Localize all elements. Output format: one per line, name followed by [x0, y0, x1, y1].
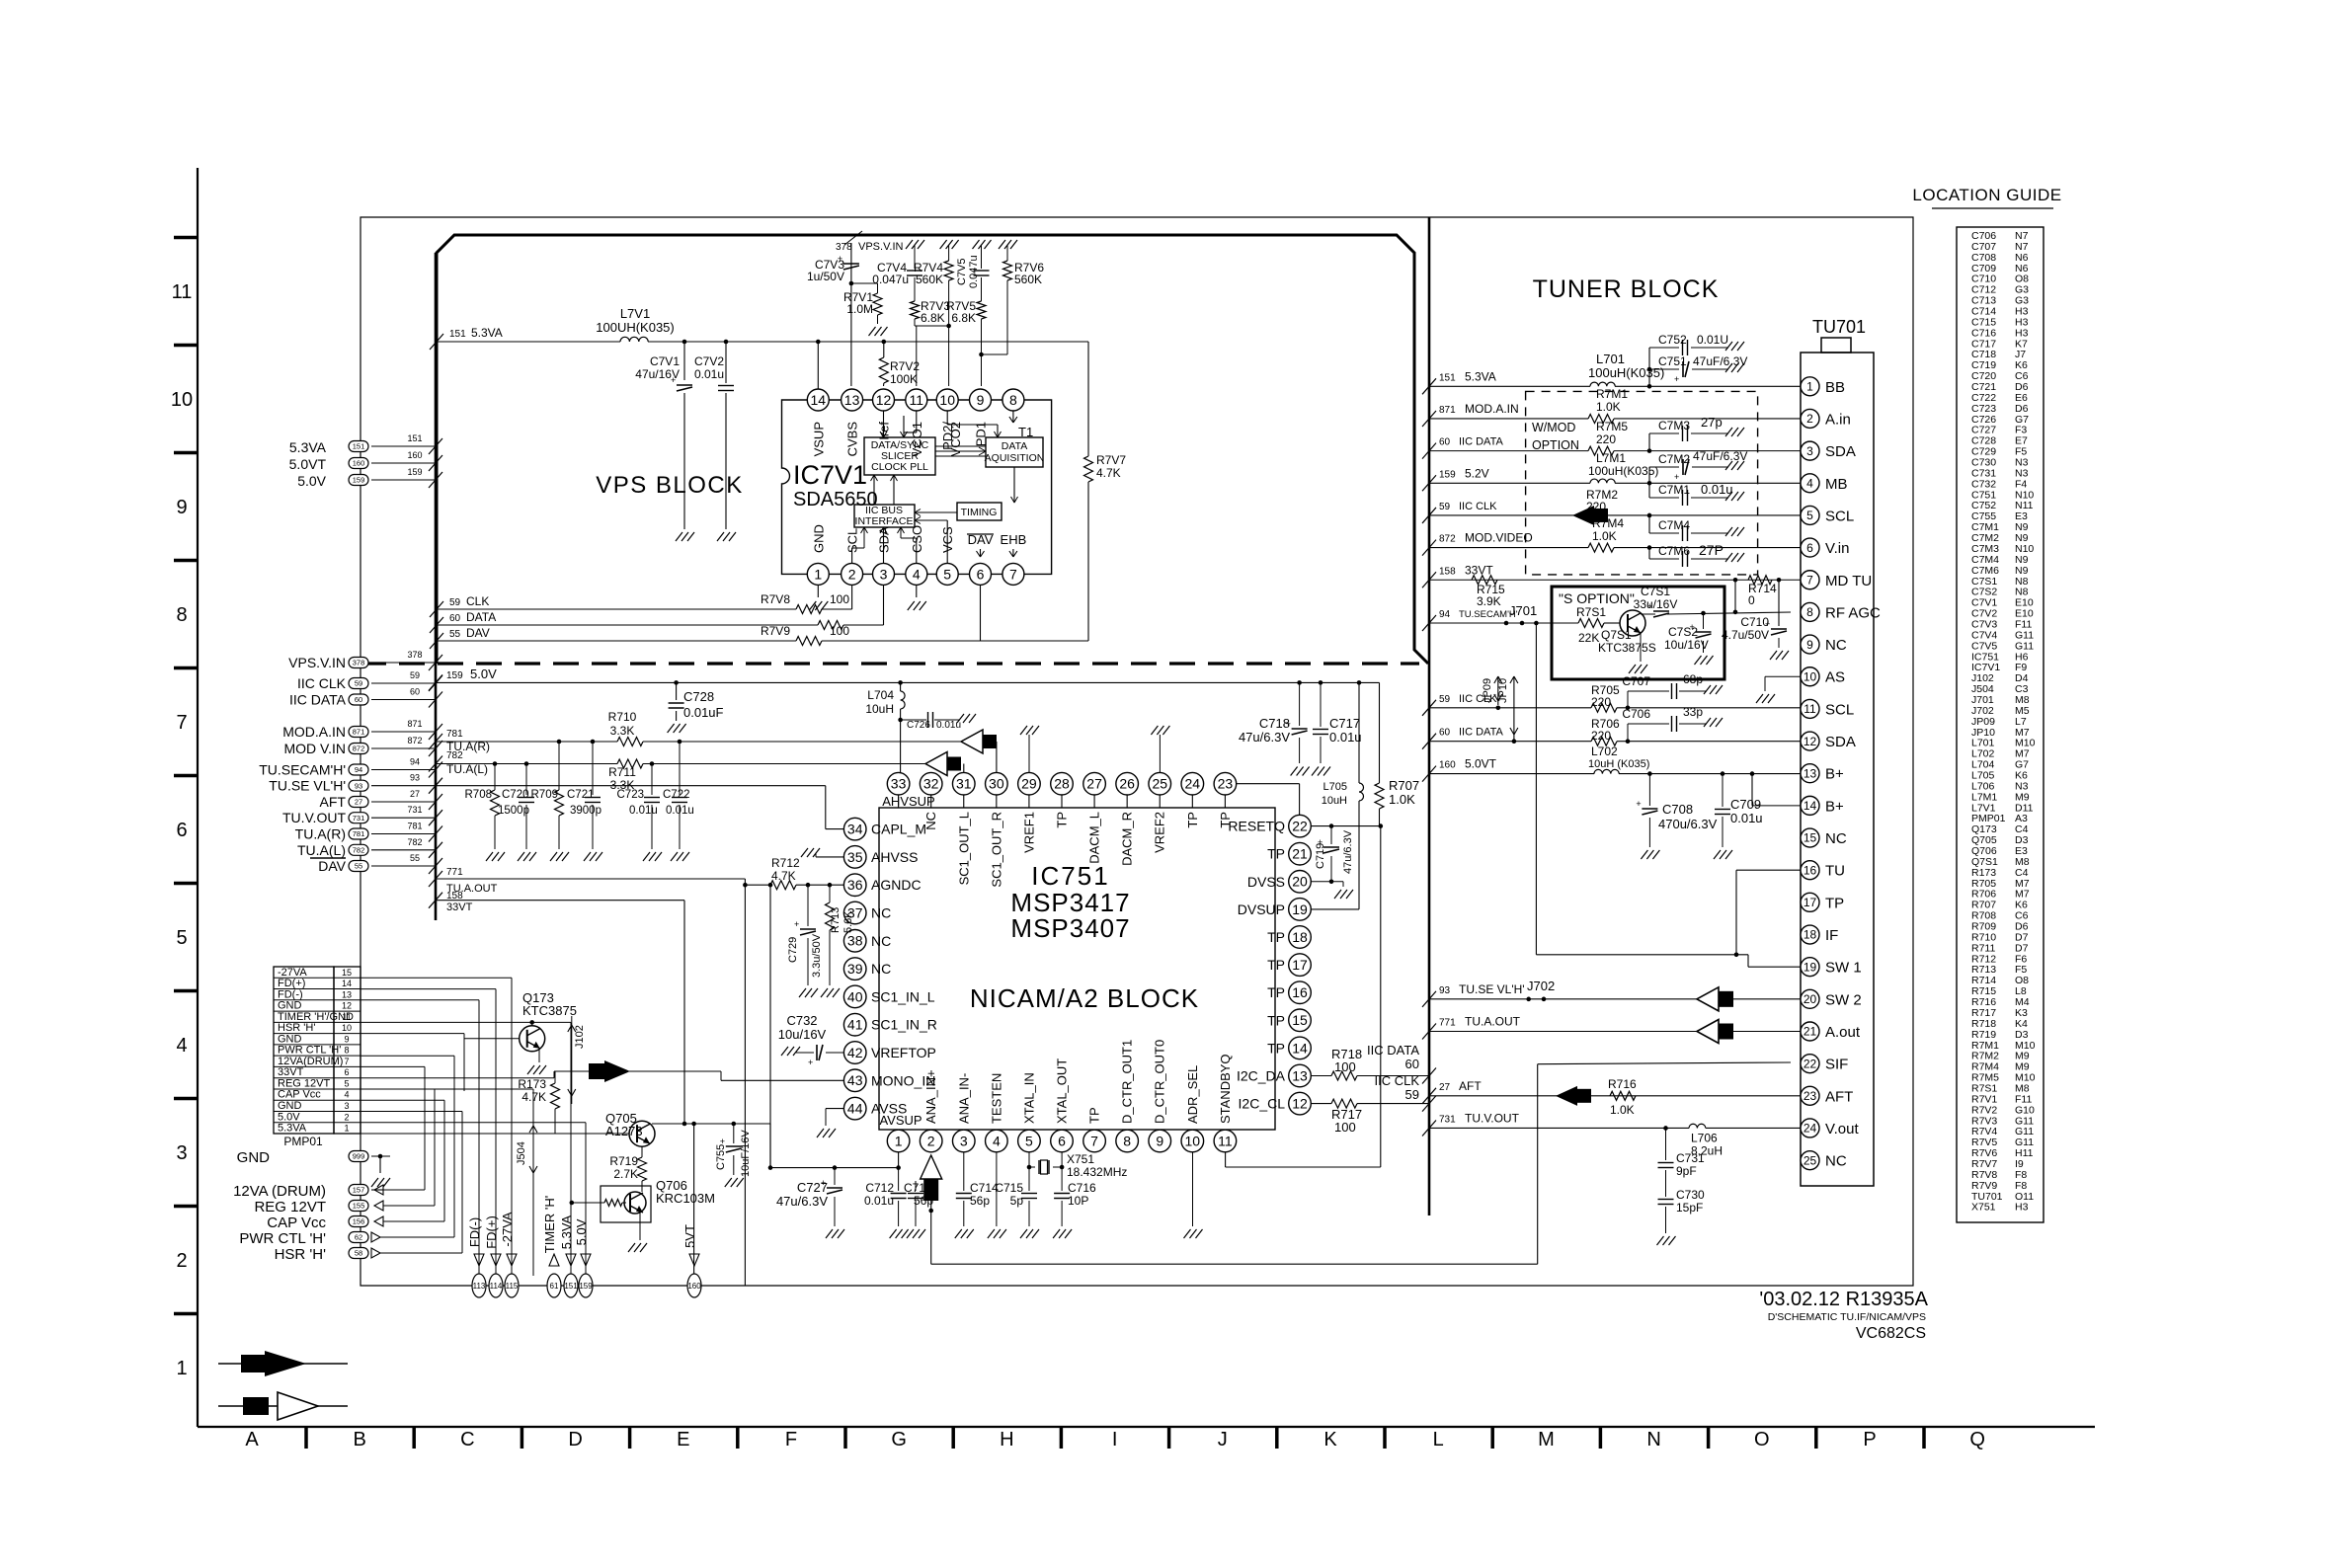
capacitor C715: [1028, 1152, 1030, 1191]
svg-text:32: 32: [923, 776, 939, 792]
svg-text:781: 781: [446, 729, 463, 740]
svg-text:14: 14: [342, 979, 352, 988]
svg-text:IC751: IC751: [1031, 861, 1109, 891]
pin 22 of IC751: [1289, 815, 1312, 837]
svg-text:9: 9: [344, 1034, 349, 1044]
pin 44 of IC751: [843, 1097, 866, 1120]
svg-text:+: +: [1636, 799, 1641, 809]
svg-text:1.0K: 1.0K: [1610, 1103, 1635, 1117]
pin 5 of IC751: [1018, 1130, 1041, 1152]
svg-text:16: 16: [1804, 863, 1817, 877]
svg-text:SCL: SCL: [1825, 701, 1854, 718]
svg-text:12VA (DRUM): 12VA (DRUM): [233, 1183, 326, 1200]
svg-text:100: 100: [1334, 1059, 1356, 1074]
svg-text:AS: AS: [1825, 669, 1845, 686]
transistor Q706 digital: [601, 1186, 651, 1222]
svg-text:C706: C706: [1622, 707, 1650, 721]
svg-text:C712: C712: [865, 1181, 894, 1195]
svg-text:R7V9: R7V9: [761, 624, 790, 638]
pin 17 of IC751: [1289, 954, 1312, 977]
svg-text:13: 13: [342, 989, 352, 999]
svg-text:33VT: 33VT: [278, 1066, 304, 1078]
pin 39 of IC751: [843, 958, 866, 980]
svg-text:11: 11: [342, 1012, 351, 1022]
svg-text:19: 19: [1292, 902, 1308, 917]
jumper J702: [1526, 997, 1531, 1002]
wire pin 16 TU: [1736, 869, 1801, 871]
svg-text:BB: BB: [1825, 379, 1845, 396]
svg-text:R7V2: R7V2: [890, 359, 920, 373]
svg-text:AFT: AFT: [1825, 1088, 1853, 1105]
svg-text:378: 378: [836, 242, 852, 253]
svg-text:L702: L702: [1591, 745, 1618, 758]
ground Q173 emitter: [538, 1049, 540, 1062]
svg-text:0.01u: 0.01u: [694, 367, 724, 381]
svg-text:ANA_IN+: ANA_IN+: [923, 1069, 938, 1124]
svg-text:781: 781: [407, 822, 422, 831]
svg-text:100: 100: [830, 592, 849, 606]
svg-text:1.0K: 1.0K: [1596, 400, 1621, 414]
svg-text:TESTEN: TESTEN: [989, 1073, 1003, 1124]
wire pin 23 to RESETQ: [1237, 783, 1300, 785]
svg-text:871: 871: [1439, 405, 1456, 416]
wire TU.A(R) 781 line: [429, 734, 442, 749]
svg-text:L706: L706: [1691, 1131, 1718, 1144]
svg-text:18: 18: [1292, 929, 1308, 945]
svg-text:J504: J504: [516, 1141, 527, 1165]
svg-text:782: 782: [446, 750, 463, 761]
svg-text:5.6K: 5.6K: [842, 910, 854, 933]
wire RESETQ net riser: [1380, 826, 1382, 1167]
capacitor C751 tuner top: [1649, 368, 1679, 370]
svg-text:HSR 'H': HSR 'H': [278, 1022, 315, 1034]
svg-text:SW 2: SW 2: [1825, 991, 1862, 1008]
svg-text:CLK: CLK: [466, 594, 489, 608]
wire AFT to pin 23: [1422, 1088, 1436, 1104]
svg-text:5.0V: 5.0V: [278, 1111, 300, 1123]
capacitor C709: [1721, 771, 1725, 776]
svg-text:94: 94: [355, 765, 362, 774]
svg-text:IIC CLK: IIC CLK: [1459, 501, 1497, 512]
resistor R7V1: [849, 281, 854, 286]
svg-text:0.01u: 0.01u: [864, 1194, 894, 1208]
svg-text:160: 160: [407, 450, 422, 460]
svg-text:4: 4: [1806, 476, 1813, 490]
svg-text:26: 26: [1119, 776, 1135, 792]
svg-text:33VT: 33VT: [1465, 563, 1493, 577]
svg-text:NICAM/A2 BLOCK: NICAM/A2 BLOCK: [970, 983, 1199, 1013]
svg-text:3: 3: [344, 1101, 349, 1111]
pin 18 of TU701: [1801, 925, 1819, 944]
pin 22 of TU701: [1801, 1055, 1819, 1073]
wire right bus vertical: [1428, 217, 1431, 1215]
inductor L704: [898, 680, 903, 685]
svg-text:3900p: 3900p: [570, 805, 601, 817]
arrow on AFT line: [1556, 1086, 1577, 1106]
svg-text:782: 782: [353, 845, 365, 854]
svg-text:D: D: [568, 1429, 582, 1450]
capacitor C726: [898, 718, 903, 723]
pin 2 of TU701: [1801, 409, 1819, 428]
svg-text:5.3VA: 5.3VA: [1465, 369, 1496, 383]
svg-text:CAP Vcc: CAP Vcc: [267, 1215, 326, 1231]
svg-text:4: 4: [993, 1133, 1001, 1148]
wire 60 DATA line: [430, 617, 443, 633]
svg-text:TU.A(R): TU.A(R): [295, 826, 346, 842]
capacitor C732: [826, 1052, 843, 1054]
svg-text:58: 58: [355, 1249, 362, 1258]
resistor R7V4: [944, 261, 953, 280]
svg-text:151: 151: [407, 433, 422, 443]
pin 3 of IC7V1: [873, 563, 895, 585]
svg-text:DATA: DATA: [1002, 440, 1027, 452]
pin 11 of TU701: [1801, 699, 1819, 718]
svg-text:A.out: A.out: [1825, 1024, 1861, 1041]
svg-text:DAV: DAV: [466, 626, 490, 640]
svg-text:GND: GND: [278, 1100, 302, 1112]
capacitor C727: [834, 1168, 836, 1185]
pin 25 of TU701: [1801, 1151, 1819, 1170]
pin 1 of IC7V1: [807, 563, 829, 585]
svg-text:ADR_SEL: ADR_SEL: [1185, 1065, 1200, 1124]
svg-text:7: 7: [1009, 566, 1017, 582]
svg-text:10: 10: [1804, 669, 1817, 683]
column tick marks: [304, 1427, 308, 1449]
svg-text:151: 151: [353, 442, 365, 451]
svg-text:15: 15: [342, 968, 352, 978]
wire 33VT to pin 7 MD TU: [1422, 572, 1436, 588]
svg-text:TU.SE VL'H': TU.SE VL'H': [1459, 982, 1525, 996]
ground top cluster VPS: [906, 240, 924, 249]
pin 27 of IC751: [1093, 795, 1095, 808]
svg-text:C708: C708: [1662, 802, 1693, 817]
svg-text:SDA: SDA: [1825, 734, 1856, 750]
wire dashed separator line: [361, 662, 1419, 665]
svg-text:R712: R712: [771, 856, 800, 870]
svg-text:DACM_R: DACM_R: [1120, 812, 1135, 866]
svg-text:G: G: [891, 1429, 907, 1450]
svg-text:9: 9: [977, 392, 985, 408]
pin 14 of IC7V1: [807, 389, 829, 411]
resistor R7V5: [977, 301, 986, 319]
svg-text:C7M1: C7M1: [1658, 483, 1690, 497]
pin 9 of TU701: [1801, 635, 1819, 654]
svg-text:C709: C709: [1730, 797, 1761, 812]
svg-text:ANA_IN-: ANA_IN-: [956, 1073, 971, 1124]
pin 1 of TU701: [1801, 377, 1819, 396]
wire IIC DATA to pin 12 SDA: [1422, 734, 1436, 749]
svg-text:AHVSS: AHVSS: [871, 849, 918, 865]
wire TU.V.OUT to pin 24 V.out: [1422, 1120, 1436, 1136]
svg-text:782: 782: [407, 837, 422, 847]
pin 21 of IC751: [1289, 842, 1312, 865]
resistor R714: [1733, 578, 1738, 583]
wire 55 DAV line: [430, 633, 443, 649]
svg-text:156: 156: [353, 1217, 365, 1226]
svg-text:Q: Q: [1969, 1429, 1985, 1450]
svg-text:11: 11: [172, 281, 193, 303]
svg-text:C7M3: C7M3: [1658, 419, 1690, 432]
connector TU701 body: [1801, 353, 1874, 1186]
svg-text:TP: TP: [1267, 957, 1285, 973]
svg-text:TIMER 'H': TIMER 'H': [542, 1196, 557, 1253]
box S OPTION: [1552, 587, 1724, 679]
svg-text:I2C_CL: I2C_CL: [1239, 1096, 1286, 1112]
svg-text:XTAL_IN: XTAL_IN: [1021, 1072, 1036, 1124]
capacitor C729: [806, 883, 811, 888]
pin 6 of IC751: [1051, 1130, 1074, 1152]
svg-text:AHVSUP: AHVSUP: [882, 794, 934, 809]
box IIC BUS INTERFACE: [854, 505, 915, 527]
pin 6 of IC7V1: [970, 563, 992, 585]
svg-text:IIC DATA: IIC DATA: [1459, 727, 1503, 739]
location guide rows: [1971, 230, 2036, 1214]
capacitor C7M6: [1647, 545, 1652, 550]
svg-text:56p: 56p: [914, 1194, 933, 1208]
svg-text:C7V1: C7V1: [650, 354, 680, 368]
capacitor C7V3: [843, 264, 859, 270]
svg-text:5: 5: [344, 1078, 349, 1088]
svg-text:100UH(K035): 100UH(K035): [596, 320, 675, 335]
wire MOD.A.IN to pin 2: [1422, 411, 1436, 427]
pin 7 of IC751: [1083, 1130, 1106, 1152]
svg-text:5: 5: [1806, 509, 1813, 522]
svg-text:1500p: 1500p: [498, 805, 529, 817]
svg-text:DAV: DAV: [318, 858, 346, 874]
svg-text:OPTION: OPTION: [1532, 438, 1579, 452]
svg-text:24: 24: [1804, 1122, 1817, 1136]
svg-text:J: J: [1218, 1429, 1228, 1450]
svg-text:IIC DATA: IIC DATA: [1367, 1043, 1419, 1058]
svg-text:18: 18: [1804, 928, 1817, 942]
op-amp U.. IC751 body: [879, 808, 1275, 1130]
svg-text:TP: TP: [1267, 984, 1285, 1000]
svg-text:731: 731: [407, 805, 422, 815]
svg-text:871: 871: [407, 719, 422, 729]
svg-text:19: 19: [1804, 960, 1817, 974]
svg-text:MOD.A.IN: MOD.A.IN: [282, 724, 346, 740]
pin 20 of TU701: [1801, 989, 1819, 1008]
svg-text:731: 731: [1439, 1114, 1456, 1125]
svg-text:61: 61: [550, 1282, 559, 1291]
svg-text:5.0VT: 5.0VT: [1465, 757, 1497, 771]
svg-text:15: 15: [1292, 1012, 1308, 1028]
svg-text:XTAL_OUT: XTAL_OUT: [1055, 1058, 1070, 1124]
svg-text:NC: NC: [871, 933, 891, 949]
svg-text:60: 60: [410, 687, 420, 697]
svg-text:SC1_IN_L: SC1_IN_L: [871, 988, 935, 1004]
svg-text:TU.A(L): TU.A(L): [446, 762, 488, 776]
pin 19 of TU701: [1801, 958, 1819, 977]
svg-text:29: 29: [1021, 776, 1037, 792]
arrow into pin 31: [963, 764, 965, 773]
svg-text:TP: TP: [1267, 1012, 1285, 1028]
svg-text:C732: C732: [786, 1013, 817, 1028]
svg-text:220: 220: [1586, 500, 1606, 513]
svg-text:470u/6.3V: 470u/6.3V: [1658, 817, 1718, 831]
svg-text:X751: X751: [1067, 1152, 1094, 1166]
resistor R7V2: [882, 340, 887, 345]
svg-text:60: 60: [1405, 1057, 1419, 1071]
wire pin 22 RESETQ line: [1311, 825, 1381, 827]
svg-text:220: 220: [1591, 729, 1611, 743]
svg-text:10u/16V: 10u/16V: [778, 1027, 827, 1042]
pin 6 of TU701: [1801, 538, 1819, 557]
svg-text:55: 55: [449, 629, 461, 640]
svg-text:59: 59: [1405, 1087, 1419, 1102]
svg-text:35: 35: [847, 849, 863, 865]
svg-text:MOD V.IN: MOD V.IN: [284, 741, 347, 756]
pin 13 of TU701: [1801, 764, 1819, 783]
svg-text:872: 872: [407, 736, 422, 745]
svg-text:TU.SE VL'H': TU.SE VL'H': [269, 778, 346, 794]
svg-text:21: 21: [1804, 1025, 1817, 1039]
location guide box: [1957, 227, 2044, 1222]
svg-text:5: 5: [176, 927, 187, 949]
svg-text:6: 6: [1058, 1133, 1066, 1148]
svg-text:FD(-): FD(-): [467, 1217, 482, 1247]
jumper JP10: [1512, 739, 1517, 744]
svg-text:160: 160: [353, 459, 365, 468]
svg-text:TP: TP: [1825, 895, 1844, 911]
svg-text:C727: C727: [797, 1180, 828, 1195]
svg-text:159: 159: [1439, 469, 1456, 480]
svg-text:R707: R707: [1389, 778, 1419, 793]
svg-text:FD(+): FD(+): [278, 978, 305, 989]
svg-text:59: 59: [1439, 502, 1451, 512]
svg-text:47u/16V: 47u/16V: [635, 367, 680, 381]
svg-text:REG 12VT: REG 12VT: [278, 1077, 330, 1089]
svg-text:TU701: TU701: [1812, 317, 1866, 337]
pin 23 of TU701: [1801, 1086, 1819, 1105]
svg-text:0.01u: 0.01u: [936, 720, 961, 731]
svg-text:7: 7: [1090, 1133, 1098, 1148]
svg-text:TU.A.OUT: TU.A.OUT: [1465, 1015, 1521, 1029]
pin 28 of IC751: [1061, 795, 1063, 808]
svg-text:14: 14: [1292, 1040, 1308, 1056]
wire 33VT 158 line: [429, 893, 442, 908]
svg-text:IIC CLK: IIC CLK: [297, 675, 347, 691]
pin 3 of IC751: [952, 1130, 975, 1152]
svg-text:IIC CLK: IIC CLK: [1459, 693, 1497, 705]
svg-text:F: F: [785, 1429, 797, 1450]
ground for connector 999: [379, 1156, 381, 1173]
svg-text:CAPL_M: CAPL_M: [871, 822, 926, 837]
svg-text:C716: C716: [1068, 1181, 1096, 1195]
svg-text:15pF: 15pF: [1676, 1201, 1703, 1215]
svg-text:TUNER BLOCK: TUNER BLOCK: [1533, 275, 1720, 303]
wire pin 10 AS to ground: [1765, 675, 1801, 677]
svg-text:I: I: [1112, 1429, 1118, 1450]
pin 34 of IC751: [843, 818, 866, 840]
svg-text:4.7u/50V: 4.7u/50V: [1722, 628, 1769, 642]
svg-text:VREFTOP: VREFTOP: [871, 1045, 936, 1060]
resistor R718 to bus: [1311, 1075, 1331, 1077]
svg-text:L7M1: L7M1: [1596, 451, 1626, 465]
svg-text:14: 14: [1804, 799, 1817, 813]
svg-text:Q7S1: Q7S1: [1601, 628, 1632, 642]
svg-text:59: 59: [410, 670, 420, 680]
svg-text:6: 6: [176, 820, 187, 841]
svg-text:1: 1: [1806, 380, 1813, 394]
wire 5.0VT to pin 13 B+: [1422, 766, 1436, 782]
svg-text:17: 17: [1804, 896, 1817, 909]
svg-text:SIF: SIF: [1825, 1057, 1848, 1073]
svg-text:30: 30: [989, 776, 1004, 792]
border frame left edge: [197, 168, 199, 1427]
svg-text:151: 151: [1439, 372, 1456, 383]
svg-text:N: N: [1646, 1429, 1660, 1450]
svg-text:6.8K: 6.8K: [951, 311, 976, 325]
svg-text:C728: C728: [683, 689, 714, 704]
wire 5VT riser: [693, 1124, 695, 1274]
pin 38 of IC751: [843, 930, 866, 953]
svg-text:C713: C713: [904, 1181, 932, 1195]
capacitor C7M1: [1648, 483, 1650, 498]
ground at pin 4 of IC7V1: [916, 585, 918, 597]
pin 40 of IC751: [843, 985, 866, 1008]
svg-text:1: 1: [344, 1124, 349, 1134]
border frame bottom edge: [198, 1426, 2095, 1428]
svg-text:CLOCK PLL: CLOCK PLL: [871, 461, 928, 473]
svg-text:C731: C731: [1676, 1151, 1705, 1165]
svg-text:10: 10: [1185, 1133, 1201, 1148]
pin 15 of IC751: [1289, 1009, 1312, 1032]
svg-text:47uF/6.3V: 47uF/6.3V: [1693, 354, 1747, 368]
resistor R173: [551, 1083, 560, 1109]
svg-text:0.01U: 0.01U: [1697, 333, 1728, 347]
svg-text:R173: R173: [518, 1077, 546, 1091]
pin 11 of IC7V1: [906, 389, 927, 411]
wire RF AGC junction riser: [1734, 580, 1736, 612]
svg-text:378: 378: [407, 650, 422, 660]
svg-text:2.7K: 2.7K: [613, 1167, 638, 1181]
pin 1 of IC751: [887, 1130, 910, 1152]
pin 16 of IC751: [1289, 981, 1312, 1004]
svg-text:IIC CLK: IIC CLK: [1374, 1073, 1419, 1088]
svg-text:SC1_OUT_L: SC1_OUT_L: [956, 812, 971, 885]
wire data acquisition to timing: [1013, 467, 1015, 503]
capacitor C7V5: [981, 257, 983, 269]
svg-text:55: 55: [410, 853, 420, 863]
pin 26 of IC751: [1126, 795, 1128, 808]
arrow on SCL line: [1572, 506, 1594, 525]
svg-text:C: C: [460, 1429, 474, 1450]
svg-text:100uH(K035): 100uH(K035): [1588, 365, 1664, 380]
overline for DAV label: [310, 857, 346, 859]
svg-text:R708: R708: [465, 789, 493, 801]
svg-text:TIMING: TIMING: [961, 507, 998, 518]
capacitor C718: [1299, 682, 1301, 726]
svg-text:151: 151: [449, 329, 466, 340]
pin 21 of TU701: [1801, 1022, 1819, 1041]
ground at pin 44 AVSS: [826, 1108, 843, 1110]
svg-text:FD(+): FD(+): [484, 1215, 499, 1249]
pin 7 of TU701: [1801, 571, 1819, 589]
pin 5 of TU701: [1801, 506, 1819, 524]
pin 31 of IC751: [963, 795, 965, 808]
svg-text:KRC103M: KRC103M: [656, 1191, 715, 1206]
wire pins 12 11 to slicer box: [883, 411, 885, 437]
pin 5 of IC7V1: [936, 563, 958, 585]
svg-text:3: 3: [176, 1142, 187, 1164]
pin 17 of TU701: [1801, 893, 1819, 911]
label T1 below pin 8: [1009, 411, 1017, 423]
svg-text:158: 158: [1439, 566, 1456, 577]
resistor R709 and capacitor C721: [557, 740, 562, 745]
wire IIC DATA to pin 3 SDA: [1422, 443, 1436, 459]
pin 15 of TU701: [1801, 828, 1819, 847]
